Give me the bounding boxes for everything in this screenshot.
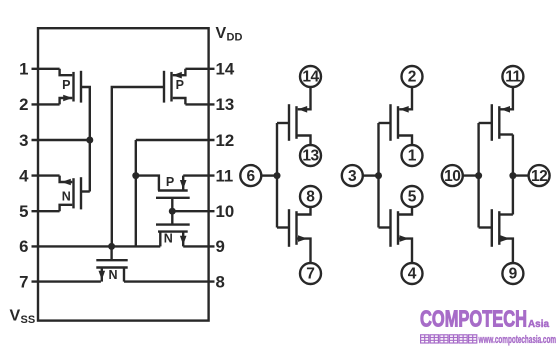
transistor Q1 PMOS pins 1-2-3 [60, 69, 90, 140]
wire pin 11 stub [183, 174, 214, 176]
node drain3 junction [509, 172, 516, 179]
pin circle 14 [300, 66, 321, 87]
wire pin 5 stub [32, 210, 60, 212]
svg-text:5: 5 [19, 202, 28, 221]
svg-text:N: N [108, 268, 117, 282]
wire pin 2 stub [32, 103, 60, 105]
svg-text:10: 10 [444, 168, 460, 185]
wire gate rail [276, 123, 278, 228]
arrow source Q6 [180, 236, 187, 245]
svg-text:11: 11 [505, 69, 521, 86]
svg-text:DD: DD [227, 32, 243, 44]
transistor U2N NMOS 5-4 [379, 226, 391, 228]
node pin10 gate junction [169, 208, 176, 215]
svg-text:6: 6 [246, 168, 255, 185]
wire output rail [512, 135, 514, 215]
svg-text:P: P [166, 175, 174, 189]
svg-text:COMPOTECH: COMPOTECH [420, 306, 527, 332]
svg-text:13: 13 [302, 148, 319, 165]
transistor U1P PMOS 14-13 [277, 122, 289, 124]
pin circle 3 [342, 165, 363, 186]
svg-text:2: 2 [19, 95, 28, 114]
node gate3 junction [475, 172, 482, 179]
arrow source Q2 [62, 179, 71, 186]
wire pin 9 stub [183, 245, 214, 247]
transistor Q4 NMOS pins 6-7-8 [96, 246, 127, 281]
pin circle 13 [300, 145, 321, 166]
transistor U3P PMOS 11-12 [479, 122, 492, 124]
svg-text:13: 13 [216, 95, 235, 114]
wire gate rail [377, 123, 379, 228]
transistor Q2 NMOS pins 4-5-3 [60, 140, 90, 211]
arrow source Q5 [180, 180, 187, 189]
transistor U3N NMOS 12-9 [479, 226, 492, 228]
node pin11 rail junction [132, 172, 139, 179]
arrow source Q1 [63, 95, 72, 102]
arrow source U2N [400, 235, 409, 242]
svg-text:12: 12 [216, 131, 235, 150]
pin circle 5 [402, 186, 423, 207]
wire pin 1 stub [32, 68, 60, 70]
inverter 2: gate node 3 [363, 87, 412, 263]
svg-text:2: 2 [408, 69, 417, 86]
transistor pair Q5 PMOS / Q6 NMOS pins 11-12-10-9 [136, 140, 190, 246]
pin circle 6 [240, 165, 261, 186]
svg-text:V: V [10, 308, 21, 325]
svg-text:3: 3 [348, 168, 357, 185]
wire pin 8 stub [124, 280, 215, 282]
svg-text:8: 8 [306, 189, 315, 206]
pin circle 1 [402, 145, 423, 166]
svg-text:1: 1 [19, 60, 28, 79]
wire to node 12 [513, 174, 529, 176]
wire pin 7 stub [32, 280, 101, 282]
svg-text:4: 4 [408, 266, 417, 283]
svg-text:14: 14 [302, 69, 319, 86]
node pin3 junction [86, 137, 93, 144]
arrow source U3P [501, 106, 510, 113]
svg-text:7: 7 [306, 266, 315, 283]
arrow source Q4 [99, 271, 106, 280]
svg-text:P: P [62, 78, 70, 92]
transistor Q3 PMOS pins 14-13-6 [112, 69, 186, 247]
node pin6 junction [108, 243, 115, 250]
arrow source U1P [298, 106, 307, 113]
node gate1 junction [274, 172, 281, 179]
svg-text:14: 14 [216, 60, 235, 79]
svg-text:1: 1 [408, 148, 417, 165]
svg-text:4: 4 [19, 166, 29, 185]
svg-text:8: 8 [216, 272, 225, 291]
arrow source U1N [298, 235, 307, 242]
arrow source Q3 [173, 72, 182, 79]
IC package outline [38, 28, 209, 320]
pin circle 9 [502, 263, 523, 284]
pin circle 4 [402, 263, 423, 284]
svg-text:5: 5 [408, 189, 417, 206]
pin circle 8 [300, 186, 321, 207]
arrow source U2P [399, 106, 408, 113]
svg-text:9: 9 [216, 237, 225, 256]
svg-text:3: 3 [19, 131, 28, 150]
transistor U1N NMOS 8-7 [277, 226, 289, 228]
svg-text:V: V [216, 25, 227, 42]
wire node6 to rail [261, 174, 277, 176]
svg-text:N: N [164, 231, 173, 245]
pin circle 7 [300, 263, 321, 284]
pin circle 2 [402, 66, 423, 87]
wire pin 4 stub [32, 174, 60, 176]
inverter 1: gate node 6 [261, 87, 310, 263]
wire pin12 rail [135, 140, 137, 246]
node gate2 junction [375, 172, 382, 179]
svg-text:SS: SS [21, 314, 36, 326]
wire pin 10 stub [172, 210, 214, 212]
wire gate rail [477, 123, 479, 228]
logo chinese tagline [421, 335, 477, 343]
svg-text:11: 11 [216, 166, 234, 185]
arrow source U3N [500, 235, 509, 242]
wire pin 3 net [32, 139, 90, 141]
pin circle 11 [502, 66, 523, 87]
pin circle 12 [529, 165, 550, 186]
svg-text:7: 7 [19, 272, 28, 291]
svg-text:Asia: Asia [528, 318, 549, 330]
wire pin 12 stub [136, 139, 215, 141]
transistor U2P PMOS 2-1 [379, 122, 391, 124]
wire pin 6 net [32, 245, 161, 247]
svg-text:www.compotechasia.com: www.compotechasia.com [478, 334, 556, 346]
svg-text:6: 6 [19, 237, 28, 256]
pin circle 10 [442, 165, 463, 186]
inverter 3: gate node 10 [463, 87, 529, 263]
wire node3 to rail [363, 174, 379, 176]
wire pin 14 stub [185, 68, 214, 70]
svg-text:P: P [176, 78, 184, 92]
wire node10 to rail [463, 174, 479, 176]
wire pin 13 stub [185, 103, 214, 105]
svg-text:N: N [62, 190, 71, 204]
svg-text:9: 9 [509, 266, 518, 283]
svg-text:12: 12 [531, 168, 547, 185]
svg-text:10: 10 [216, 202, 235, 221]
